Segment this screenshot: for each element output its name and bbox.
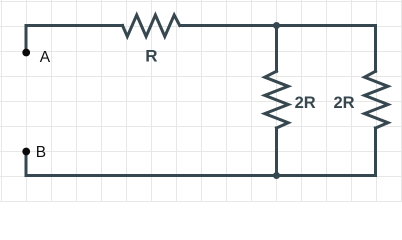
wire: terminal B stub — [25, 152, 28, 176]
svg-text:B: B — [36, 144, 46, 161]
svg-text:2R: 2R — [295, 94, 316, 112]
wire: bottom segment B to junction — [26, 174, 277, 177]
wire: bottom segment junction to right branch — [277, 174, 376, 177]
resistor R — [123, 15, 180, 37]
junction dot top — [273, 22, 280, 29]
svg-text:2R: 2R — [334, 94, 355, 112]
wire: top left segment A to resistor R — [26, 24, 123, 27]
resistor 2R (right branch) — [365, 71, 389, 128]
terminal dot A — [22, 49, 30, 57]
svg-text:A: A — [40, 49, 51, 66]
wire: top segment junction to right branch — [277, 24, 376, 27]
svg-text:R: R — [145, 46, 157, 65]
wire: top segment resistor R to junction — [180, 24, 277, 27]
wire: branch 1 bottom lead — [275, 128, 278, 176]
wire: branch 2 bottom lead — [374, 128, 377, 176]
terminal dot B — [22, 148, 30, 156]
resistor 2R (left branch) — [265, 71, 289, 128]
wire: terminal A stub — [25, 26, 28, 53]
junction dot bottom — [273, 172, 280, 179]
wire: branch 1 top lead — [275, 26, 278, 72]
wire: branch 2 top lead — [374, 26, 377, 72]
